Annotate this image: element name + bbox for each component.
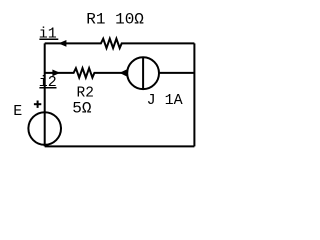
svg-text:J 1A: J 1A xyxy=(147,92,183,109)
svg-text:i1: i1 xyxy=(39,26,57,43)
plus sign polarity mark xyxy=(34,103,41,105)
current source J internal vertical bar xyxy=(142,57,144,89)
current arrow i1 on top wire pointing left xyxy=(58,40,66,47)
current source J arrow pointing left xyxy=(120,69,128,77)
wire left side xyxy=(44,43,46,146)
svg-text:5Ω: 5Ω xyxy=(72,100,92,118)
wire middle left segment with resistor R2 zigzag inline xyxy=(45,68,128,77)
svg-text:E: E xyxy=(13,103,22,120)
current source J circle xyxy=(127,57,159,89)
svg-text:R1 10Ω: R1 10Ω xyxy=(86,11,144,29)
wire bottom xyxy=(45,145,195,147)
wire middle right segment xyxy=(159,72,194,74)
voltage source E circle xyxy=(28,112,61,145)
wire top with resistor R1 zigzag inline xyxy=(45,39,195,48)
current arrow i2 on middle wire pointing right xyxy=(52,70,60,77)
wire right side xyxy=(193,43,195,146)
